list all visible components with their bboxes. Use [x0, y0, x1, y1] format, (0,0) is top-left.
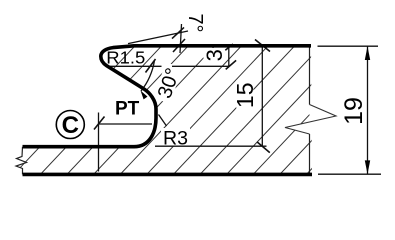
svg-text:19: 19 — [340, 97, 368, 125]
svg-text:3: 3 — [202, 49, 227, 61]
svg-text:C: C — [62, 112, 79, 139]
svg-text:PT: PT — [115, 98, 140, 119]
svg-text:15: 15 — [232, 83, 258, 109]
svg-text:R1.5: R1.5 — [106, 48, 145, 68]
svg-text:R3: R3 — [163, 128, 188, 150]
svg-text:7°: 7° — [184, 13, 206, 32]
